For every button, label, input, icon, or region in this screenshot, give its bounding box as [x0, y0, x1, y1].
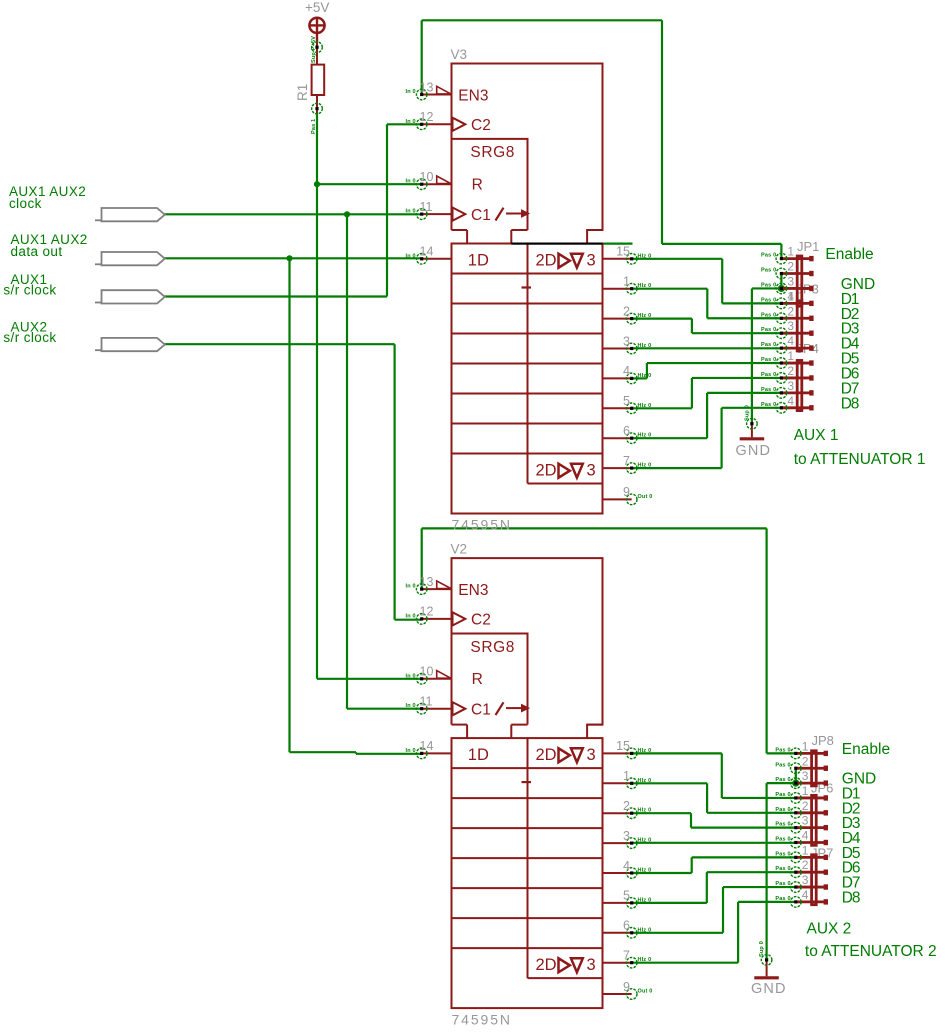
svg-text:to ATTENUATOR 1: to ATTENUATOR 1 — [794, 451, 926, 468]
svg-text:In 0: In 0 — [406, 209, 416, 215]
svg-text:R: R — [472, 671, 483, 688]
svg-text:HIz 0: HIz 0 — [638, 957, 652, 963]
svg-text:EN3: EN3 — [458, 87, 488, 104]
svg-text:HIz 0: HIz 0 — [638, 778, 652, 784]
svg-text:+5V: +5V — [305, 0, 329, 15]
svg-text:14: 14 — [420, 245, 434, 259]
svg-text:14: 14 — [420, 739, 434, 753]
svg-text:JP8: JP8 — [812, 733, 834, 748]
svg-text:1D: 1D — [468, 252, 489, 270]
svg-text:Pas 0: Pas 0 — [761, 372, 776, 378]
svg-text:1: 1 — [623, 275, 630, 289]
svg-text:3: 3 — [587, 252, 596, 270]
svg-text:HIz 0: HIz 0 — [638, 373, 652, 379]
svg-text:4: 4 — [802, 829, 809, 843]
svg-text:Pas 0: Pas 0 — [775, 807, 790, 813]
svg-text:9: 9 — [623, 485, 630, 499]
svg-text:2: 2 — [787, 304, 794, 318]
svg-text:3: 3 — [802, 873, 809, 887]
svg-text:HIz 0: HIz 0 — [638, 463, 652, 469]
svg-text:HIz 0: HIz 0 — [638, 897, 652, 903]
svg-text:HIz 0: HIz 0 — [638, 808, 652, 814]
svg-text:Pas 0: Pas 0 — [775, 866, 790, 872]
svg-text:HIz 0: HIz 0 — [638, 403, 652, 409]
svg-text:Pas 0: Pas 0 — [761, 297, 776, 303]
svg-text:1D: 1D — [468, 746, 489, 764]
svg-text:12: 12 — [420, 110, 434, 124]
svg-text:2: 2 — [623, 304, 630, 318]
svg-text:HIz 0: HIz 0 — [638, 253, 652, 259]
svg-text:7: 7 — [623, 949, 630, 963]
svg-text:2D: 2D — [536, 252, 557, 270]
svg-text:3: 3 — [787, 319, 794, 333]
svg-text:In 0: In 0 — [406, 748, 416, 754]
svg-text:HIz 0: HIz 0 — [638, 927, 652, 933]
svg-text:AUX 2: AUX 2 — [807, 921, 852, 938]
svg-text:4: 4 — [802, 888, 809, 902]
svg-text:Enable: Enable — [842, 741, 890, 758]
svg-text:Enable: Enable — [825, 246, 873, 263]
svg-text:Pas 0: Pas 0 — [775, 837, 790, 843]
svg-text:11: 11 — [420, 695, 433, 709]
svg-text:D8: D8 — [841, 395, 859, 412]
svg-text:R: R — [472, 176, 483, 193]
svg-text:SRG8: SRG8 — [470, 639, 515, 656]
svg-text:HIz 0: HIz 0 — [638, 868, 652, 874]
svg-text:5: 5 — [623, 889, 630, 903]
svg-text:GND: GND — [736, 443, 772, 459]
svg-text:12: 12 — [420, 605, 434, 619]
svg-text:2: 2 — [802, 858, 809, 872]
svg-text:In 0: In 0 — [406, 119, 416, 125]
svg-text:Sup P+5V: Sup P+5V — [311, 36, 317, 63]
svg-text:2D: 2D — [536, 462, 557, 480]
svg-text:3: 3 — [802, 769, 809, 783]
svg-text:3: 3 — [587, 956, 596, 974]
svg-text:s/r clock: s/r clock — [3, 330, 56, 345]
svg-text:13: 13 — [420, 80, 434, 94]
svg-text:In 0: In 0 — [406, 253, 416, 259]
svg-text:Sup 0: Sup 0 — [745, 405, 751, 421]
svg-text:Pas 0: Pas 0 — [761, 312, 776, 318]
svg-text:HIz 0: HIz 0 — [638, 313, 652, 319]
svg-text:3: 3 — [623, 829, 630, 843]
svg-text:2: 2 — [623, 799, 630, 813]
svg-text:5: 5 — [623, 394, 630, 408]
svg-text:Pas 0: Pas 0 — [775, 777, 790, 783]
svg-text:1: 1 — [623, 769, 630, 783]
svg-text:Pas 0: Pas 0 — [761, 402, 776, 408]
svg-text:HIz 0: HIz 0 — [638, 433, 652, 439]
svg-text:Pas 0: Pas 0 — [761, 253, 776, 259]
svg-text:In 0: In 0 — [406, 673, 416, 679]
svg-text:2D: 2D — [536, 746, 557, 764]
svg-text:C2: C2 — [471, 117, 491, 134]
svg-text:Pas 0: Pas 0 — [775, 762, 790, 768]
svg-text:Pas 0: Pas 0 — [761, 268, 776, 274]
svg-text:6: 6 — [623, 424, 630, 438]
svg-text:JP1: JP1 — [797, 239, 819, 254]
svg-text:3: 3 — [802, 814, 809, 828]
svg-text:In 0: In 0 — [406, 179, 416, 185]
svg-text:data out: data out — [11, 244, 63, 259]
svg-text:Pas 0: Pas 0 — [761, 387, 776, 393]
svg-text:3: 3 — [787, 379, 794, 393]
svg-text:C1: C1 — [471, 207, 491, 224]
svg-text:1: 1 — [802, 739, 809, 753]
svg-text:C1: C1 — [471, 702, 491, 719]
svg-text:Pas 0: Pas 0 — [775, 896, 790, 902]
svg-text:In 0: In 0 — [406, 584, 416, 590]
svg-text:3: 3 — [587, 746, 596, 764]
svg-text:Pas 0: Pas 0 — [775, 851, 790, 857]
svg-text:1: 1 — [787, 349, 794, 363]
svg-text:C2: C2 — [471, 612, 491, 629]
svg-text:4: 4 — [623, 859, 630, 873]
svg-text:2D: 2D — [536, 956, 557, 974]
svg-text:3: 3 — [787, 274, 794, 288]
svg-text:AUX 1: AUX 1 — [794, 427, 839, 444]
svg-text:6: 6 — [623, 919, 630, 933]
svg-text:9: 9 — [623, 980, 630, 994]
svg-text:to ATTENUATOR 2: to ATTENUATOR 2 — [805, 943, 937, 960]
svg-text:13: 13 — [420, 575, 434, 589]
svg-text:1: 1 — [802, 784, 809, 798]
svg-text:HIz 0: HIz 0 — [638, 838, 652, 844]
svg-text:3: 3 — [587, 462, 596, 480]
svg-text:1: 1 — [802, 843, 809, 857]
svg-text:clock: clock — [9, 196, 42, 211]
svg-text:Pas 0: Pas 0 — [761, 327, 776, 333]
svg-text:HIz 0: HIz 0 — [638, 343, 652, 349]
svg-text:HIz 0: HIz 0 — [638, 283, 652, 289]
svg-text:V2: V2 — [451, 542, 468, 557]
svg-text:EN3: EN3 — [458, 582, 488, 599]
svg-text:1: 1 — [787, 245, 794, 259]
svg-text:Out 0: Out 0 — [638, 494, 653, 500]
svg-text:GND: GND — [751, 981, 787, 997]
svg-text:HIz 0: HIz 0 — [638, 748, 652, 754]
svg-text:4: 4 — [787, 394, 794, 408]
svg-text:D8: D8 — [842, 889, 860, 906]
svg-text:Pas 0: Pas 0 — [775, 792, 790, 798]
svg-text:3: 3 — [623, 334, 630, 348]
svg-text:74595N: 74595N — [452, 1011, 512, 1027]
svg-text:4: 4 — [623, 364, 630, 378]
svg-text:Pas 1: Pas 1 — [311, 119, 317, 134]
svg-text:Pas 0: Pas 0 — [775, 747, 790, 753]
svg-text:Pas 0: Pas 0 — [775, 822, 790, 828]
svg-text:In 0: In 0 — [406, 613, 416, 619]
svg-text:4: 4 — [787, 334, 794, 348]
svg-text:In 0: In 0 — [406, 703, 416, 709]
svg-text:Pas 0: Pas 0 — [775, 881, 790, 887]
svg-text:15: 15 — [616, 739, 630, 753]
svg-text:11: 11 — [420, 200, 433, 214]
svg-text:15: 15 — [616, 245, 630, 259]
svg-text:Pas 0: Pas 0 — [761, 342, 776, 348]
svg-text:s/r clock: s/r clock — [3, 283, 56, 298]
svg-text:1: 1 — [787, 289, 794, 303]
svg-text:Sup 0: Sup 0 — [759, 941, 765, 957]
svg-text:R1: R1 — [295, 84, 310, 101]
svg-text:10: 10 — [420, 170, 434, 184]
svg-text:V3: V3 — [451, 47, 468, 62]
svg-text:7: 7 — [623, 454, 630, 468]
svg-text:74595N: 74595N — [452, 517, 512, 533]
svg-text:In 0: In 0 — [406, 89, 416, 95]
svg-text:SRG8: SRG8 — [470, 144, 515, 161]
svg-text:2: 2 — [802, 754, 809, 768]
svg-text:10: 10 — [420, 665, 434, 679]
svg-text:2: 2 — [787, 364, 794, 378]
svg-text:Pas 0: Pas 0 — [761, 282, 776, 288]
svg-text:Out 0: Out 0 — [638, 989, 653, 995]
svg-text:2: 2 — [802, 799, 809, 813]
svg-text:Pas 0: Pas 0 — [761, 357, 776, 363]
svg-text:2: 2 — [787, 260, 794, 274]
